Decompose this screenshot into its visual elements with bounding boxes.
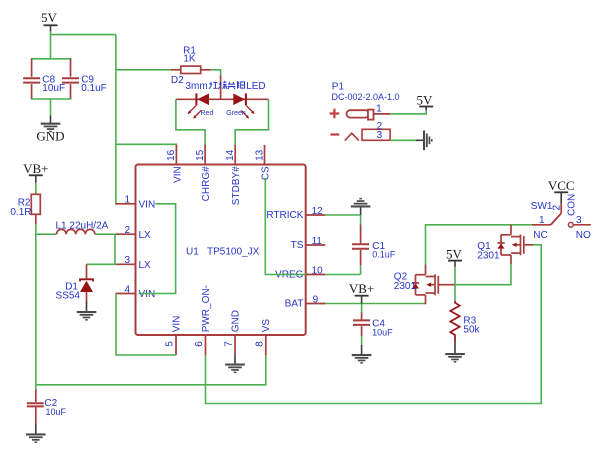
pin 12 RTRICK (right) xyxy=(266,206,325,221)
svg-text:4: 4 xyxy=(124,284,130,295)
wire 5V to R1 xyxy=(116,69,172,71)
svg-text:VB+: VB+ xyxy=(349,281,374,296)
svg-text:3: 3 xyxy=(576,215,582,226)
barrel pin 1 xyxy=(347,110,370,117)
svg-text:VS: VS xyxy=(261,319,272,333)
wire 5V to R3 top xyxy=(454,267,456,301)
svg-text:7: 7 xyxy=(224,341,235,347)
svg-text:3: 3 xyxy=(124,255,130,266)
svg-text:GND: GND xyxy=(230,310,241,332)
svg-text:3mm: 3mm xyxy=(186,81,208,92)
wire RTRICK to C1 top node xyxy=(325,214,360,216)
svg-text:10uF: 10uF xyxy=(46,407,67,417)
wire NC / Q1 source / Q2 source xyxy=(426,225,532,265)
svg-text:SW1: SW1 xyxy=(531,201,553,212)
wire D2 red cathode to CHRG# pin 15 xyxy=(176,99,205,146)
wire L1 to LX pin 2 xyxy=(95,233,116,235)
svg-text:0.1uF: 0.1uF xyxy=(81,83,107,94)
svg-text:0.1R: 0.1R xyxy=(10,207,31,218)
svg-text:10uF: 10uF xyxy=(372,328,393,338)
capacitor C9 0.1uF xyxy=(62,59,107,99)
power flag VCC xyxy=(548,178,575,204)
svg-text:PWR_ON-: PWR_ON- xyxy=(201,285,212,332)
svg-text:1: 1 xyxy=(124,195,130,206)
pin 15 CHRG# (top) xyxy=(195,145,212,202)
pin 5 VIN (bottom) xyxy=(165,316,183,355)
pin 6 PWR_ON- (bottom) xyxy=(194,285,212,355)
ground for D1 xyxy=(77,301,97,321)
power flag 5V at P1 xyxy=(417,92,434,110)
svg-text:10: 10 xyxy=(312,265,324,276)
svg-text:1K: 1K xyxy=(183,54,196,65)
pin 14 STDBY# (top) xyxy=(225,145,242,205)
svg-text:VIN: VIN xyxy=(171,316,182,333)
spring contact xyxy=(345,133,359,140)
wire VB+ to R2 xyxy=(35,183,37,195)
svg-text:VIN: VIN xyxy=(139,289,156,300)
pin 13 CS (top, unconnected stub) xyxy=(254,145,271,180)
svg-text:2301: 2301 xyxy=(477,251,500,262)
svg-text:Green: Green xyxy=(226,110,246,117)
pin 11 TS (right, unconnected) xyxy=(291,236,326,251)
svg-text:VCC: VCC xyxy=(548,178,575,193)
capacitor C4 10uF xyxy=(353,304,393,346)
pin 9 BAT (right) xyxy=(285,294,326,309)
pin 3 LX (left) xyxy=(116,255,152,271)
wire 5V rail horizontal top xyxy=(51,34,116,36)
svg-text:SS54: SS54 xyxy=(56,290,81,301)
wire 5V rail to VIN pin 16 xyxy=(116,144,176,147)
connector P1 DC-002 barrel jack xyxy=(330,82,400,141)
wire battery minus rail xyxy=(35,224,37,385)
pin 16 VIN (top) xyxy=(166,145,183,183)
svg-text:NC: NC xyxy=(533,230,547,241)
net flag VB+ left xyxy=(23,161,48,183)
plus terminal xyxy=(330,109,340,119)
pin 2 LX (left) xyxy=(116,225,152,241)
wire VIN internal bracket pin1 to pin4 xyxy=(139,204,176,294)
wire CS internal to VREG xyxy=(265,178,306,275)
svg-text:GND: GND xyxy=(36,128,64,143)
resistor R2 0.1R xyxy=(10,194,40,224)
svg-text:1: 1 xyxy=(376,103,382,114)
pin 4 VIN (left) xyxy=(116,284,156,300)
net flag VB+ battery xyxy=(349,281,374,303)
svg-text:50k: 50k xyxy=(463,324,480,335)
svg-text:LX: LX xyxy=(139,230,152,241)
svg-text:CON: CON xyxy=(567,194,578,216)
capacitor C1 0.1uF xyxy=(352,215,396,275)
wire 5V rail vertical to pin 1 xyxy=(115,35,118,204)
svg-text:14: 14 xyxy=(225,149,236,161)
inductor L1 22uH/2A xyxy=(56,221,109,235)
svg-text:11: 11 xyxy=(312,236,323,247)
wire BAT node xyxy=(325,303,425,305)
svg-text:Red: Red xyxy=(201,110,214,117)
pin 8 VS (bottom) xyxy=(254,319,272,355)
capacitor C8 10uF xyxy=(23,59,65,99)
svg-text:9: 9 xyxy=(313,294,319,305)
ground sideways at P1 xyxy=(416,131,433,151)
pin 1 VIN (left) xyxy=(116,195,156,211)
svg-text:L1 22uH/2A: L1 22uH/2A xyxy=(56,221,109,232)
ground for C2 xyxy=(26,423,46,443)
power flag 5V for R3 xyxy=(446,246,463,267)
svg-text:6: 6 xyxy=(194,341,205,347)
wire LX to D1 cathode xyxy=(87,263,116,265)
svg-text:U1: U1 xyxy=(186,246,199,257)
pin 7 GND (bottom) xyxy=(224,310,242,355)
svg-text:TS: TS xyxy=(291,240,304,251)
pin 10 VREG (right) xyxy=(275,265,325,280)
svg-text:5V: 5V xyxy=(417,92,434,107)
LED D2 green element xyxy=(245,93,247,105)
svg-text:LED: LED xyxy=(246,81,265,92)
svg-text:NO: NO xyxy=(576,230,591,241)
svg-text:DC-002-2.0A-1.0: DC-002-2.0A-1.0 xyxy=(332,92,400,102)
svg-text:2: 2 xyxy=(552,205,563,211)
wire cap bank top xyxy=(31,58,72,60)
svg-text:1: 1 xyxy=(539,215,545,226)
svg-text:LX: LX xyxy=(139,260,152,271)
resistor R1 1K xyxy=(171,45,211,73)
wire cap bank bottom xyxy=(31,98,72,100)
wire cap bank to ground xyxy=(50,99,52,115)
wire PWR_ON- pin6 to Q1 gate xyxy=(206,245,542,404)
svg-text:VB+: VB+ xyxy=(23,161,48,176)
ground for C4 xyxy=(352,345,372,364)
svg-text:BAT: BAT xyxy=(285,299,304,310)
LED D2 dual red/green common anode xyxy=(171,75,269,119)
svg-text:5V: 5V xyxy=(446,246,463,261)
wire to L1 xyxy=(36,233,57,235)
svg-text:12: 12 xyxy=(312,206,324,217)
svg-text:8: 8 xyxy=(254,341,265,347)
svg-text:2: 2 xyxy=(124,225,130,236)
svg-text:15: 15 xyxy=(195,149,206,161)
wire VREG to C1 bottom xyxy=(325,274,360,276)
wire D2 green cathode to STDBY# pin 14 xyxy=(235,99,268,146)
ground above C1 (inverted) xyxy=(351,198,371,216)
wire R1 to D2 anode xyxy=(211,70,221,76)
switch SW1 SPDT xyxy=(531,194,591,241)
ground for R3 xyxy=(445,342,465,363)
ground for pin 7 GND xyxy=(225,355,245,373)
svg-text:CHRG#: CHRG# xyxy=(201,166,212,201)
svg-text:D2: D2 xyxy=(171,75,184,86)
svg-text:VIN: VIN xyxy=(139,200,156,211)
svg-text:5: 5 xyxy=(165,341,176,347)
svg-text:VIN: VIN xyxy=(172,166,183,183)
svg-text:P1: P1 xyxy=(332,82,345,93)
svg-text:5V: 5V xyxy=(41,10,58,25)
transistor Q2 2301 xyxy=(394,265,448,305)
svg-text:2301: 2301 xyxy=(394,281,417,292)
wire LX node down to pin 3 xyxy=(115,234,116,264)
LED D2 red element xyxy=(195,93,197,105)
svg-text:STDBY#: STDBY# xyxy=(231,166,242,205)
minus terminal xyxy=(330,133,339,135)
pins 2/3 box xyxy=(362,129,390,140)
svg-text:0.1uF: 0.1uF xyxy=(372,249,396,259)
svg-text:16: 16 xyxy=(166,149,177,161)
diode D1 SS54 xyxy=(56,264,93,301)
wire 5V flag down to cap bank xyxy=(50,31,52,59)
wire pin4 to pin5 xyxy=(116,294,176,356)
wire VS pin8 to battery minus rail xyxy=(36,355,266,385)
ground GND input xyxy=(36,115,64,143)
svg-text:3: 3 xyxy=(377,130,383,141)
wire Q2 gate to Q1 drain xyxy=(447,284,455,286)
power flag 5V main input xyxy=(41,10,58,32)
svg-text:13: 13 xyxy=(254,149,265,161)
transistor Q1 2301 xyxy=(477,225,533,264)
resistor R3 50k xyxy=(450,301,480,342)
svg-text:TP5100_JX: TP5100_JX xyxy=(207,246,260,257)
IC U1 TP5100_JX body xyxy=(136,165,306,336)
wire P1 pin3 to ground xyxy=(390,139,416,141)
svg-text:10uF: 10uF xyxy=(42,83,65,94)
capacitor C2 10uF xyxy=(27,385,67,424)
svg-text:RTRICK: RTRICK xyxy=(266,210,303,221)
wire P1 pin1 to 5V xyxy=(390,108,426,114)
